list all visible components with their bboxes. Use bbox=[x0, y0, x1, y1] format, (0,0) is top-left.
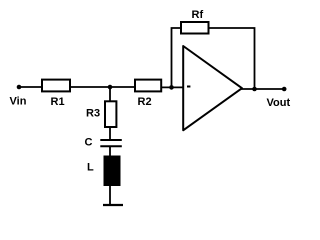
wire op-amp output to Vout bbox=[241, 88, 284, 90]
node output junction dot bbox=[252, 87, 257, 92]
wire feedback left: node B up and right to Rf bbox=[172, 28, 181, 87]
wire R2 to inverting input node bbox=[162, 86, 183, 88]
ground bar bbox=[103, 204, 123, 206]
resistor R3 bbox=[105, 101, 116, 127]
inductor L (solid body) bbox=[104, 156, 120, 186]
wire node A to R2 bbox=[110, 86, 134, 88]
node Vin terminal bbox=[17, 85, 22, 90]
op-amp inverting input minus sign bbox=[187, 86, 190, 88]
svg-text:R3: R3 bbox=[86, 107, 100, 119]
wire R3 to capacitor C bbox=[109, 128, 111, 140]
resistor R1 bbox=[42, 80, 70, 92]
wire feedback right: Rf to output node bbox=[210, 28, 255, 89]
svg-text:Vin: Vin bbox=[10, 96, 27, 108]
svg-text:C: C bbox=[85, 136, 93, 148]
node A junction dot bbox=[108, 85, 113, 90]
svg-text:Vout: Vout bbox=[267, 97, 291, 109]
wire Vin to R1 bbox=[19, 86, 41, 88]
wire C to inductor L bbox=[109, 146, 111, 157]
svg-text:R1: R1 bbox=[51, 96, 65, 108]
resistor Rf bbox=[181, 22, 209, 34]
wire L to ground bbox=[109, 186, 111, 206]
node Vout terminal bbox=[282, 87, 287, 92]
wire R1 to node A bbox=[71, 86, 110, 88]
op-amp U1 triangle bbox=[183, 46, 242, 130]
resistor R2 bbox=[135, 80, 161, 92]
svg-text:R2: R2 bbox=[138, 96, 152, 108]
svg-text:Rf: Rf bbox=[192, 9, 204, 21]
wire node A down to R3 bbox=[109, 87, 111, 101]
capacitor C plates bbox=[100, 140, 122, 146]
node B inverting input junction dot bbox=[169, 85, 174, 90]
svg-text:L: L bbox=[87, 162, 94, 174]
